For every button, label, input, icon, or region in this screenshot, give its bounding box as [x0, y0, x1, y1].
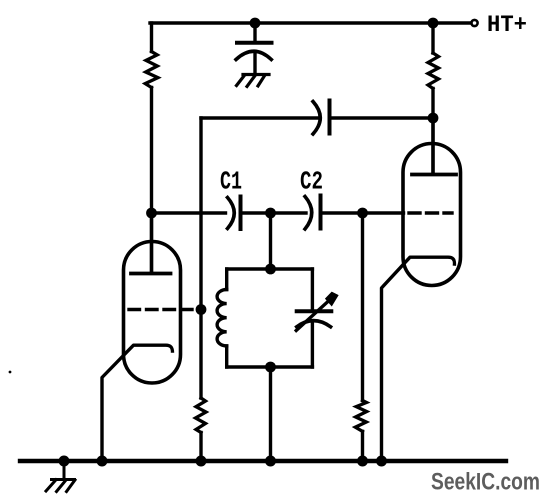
capacitor C3 coupling: curved left plate — [313, 102, 320, 135]
junction dot rail at ground symbol — [59, 456, 70, 467]
junction dot right grid node — [357, 208, 368, 219]
junction dot top rail at bypass capacitor — [250, 18, 261, 29]
wire y=213 from anode node to C1 — [152, 211, 226, 214]
cathode of V2 with lead to ground rail — [382, 257, 455, 459]
tank circuit loop (top and bottom wires) — [227, 269, 313, 367]
wire ground rail (bottom) — [20, 459, 506, 463]
cathode of V1 with lead to ground rail — [102, 345, 173, 459]
resistor R2 (right anode resistor) — [428, 53, 439, 89]
wire tank bottom to ground rail — [269, 367, 272, 459]
wire top HT+ rail — [150, 21, 471, 24]
variable capacitor VC1 (right branch of tank) — [296, 269, 338, 367]
wire rail to resistor R2 — [431, 23, 434, 53]
ground chassis symbol (top, under bypass capacitor) — [237, 75, 270, 87]
capacitor C3 coupling: straight right plate — [328, 101, 332, 134]
terminal HT+ open circle — [471, 20, 477, 26]
junction dot rail at R4 — [357, 456, 368, 467]
wire R1 to left tube anode — [150, 88, 153, 273]
capacitor bypass: flat top plate — [237, 41, 272, 45]
wire feedback line y=118 right segment — [330, 116, 434, 119]
capacitor C2: straight right plate — [319, 196, 323, 229]
wire R3 to ground rail — [199, 433, 202, 460]
junction dot rail at V2 cathode — [376, 456, 387, 467]
wire bypass capacitor to ground — [253, 54, 256, 73]
inductor L1 (left branch of tank) — [217, 269, 227, 367]
wire grid-bias vertical x=201 — [199, 118, 202, 398]
wire V1 anode lead through envelope — [150, 213, 153, 272]
capacitor C1: straight right plate — [239, 197, 243, 230]
capacitor C1: curved left plate — [228, 198, 235, 229]
wire V2 anode lead — [431, 118, 434, 173]
grid of V2 (dashed) — [409, 211, 452, 214]
wire feedback line y=118 left segment — [201, 116, 317, 119]
triode V2 (right tube) envelope — [403, 144, 461, 286]
wire rail to bypass capacitor — [253, 23, 256, 41]
svg-text:HT+: HT+ — [487, 12, 527, 39]
resistor R3 (left grid resistor) — [196, 398, 207, 433]
junction dot top rail at right resistor — [428, 18, 439, 29]
svg-text:C1: C1 — [220, 166, 242, 196]
junction dot tank top node on y=213 — [265, 208, 276, 219]
anode plate of V1 — [131, 272, 171, 276]
svg-text:SeekIC.com: SeekIC.com — [431, 469, 540, 496]
ground chassis symbol (bottom left) — [46, 461, 75, 492]
svg-text:C2: C2 — [300, 166, 323, 196]
junction dot tank top — [265, 264, 276, 275]
junction dot tank bottom — [265, 362, 276, 373]
wire y=213 between C1 and C2 — [241, 211, 307, 214]
capacitor C2: curved left plate — [305, 197, 312, 230]
wire tank top connection — [269, 213, 272, 269]
junction dot anode of right tube / R2 / C3 — [428, 113, 439, 124]
junction dot rail at tank bottom — [265, 456, 276, 467]
junction dot V1 grid to bias line — [196, 304, 207, 315]
resistor R1 (left anode resistor) — [145, 52, 158, 88]
junction dot rail at V1 cathode — [97, 456, 108, 467]
wire C2 output down to R4 — [361, 213, 364, 401]
wire R4 to ground rail — [361, 431, 364, 459]
wire R2 to right tube anode — [431, 89, 434, 174]
resistor R4 (right grid resistor) — [355, 401, 366, 432]
wire y=213 from C2 to right tube grid — [321, 211, 404, 214]
junction dot rail at R3 — [196, 456, 207, 467]
anode plate of V2 — [412, 173, 456, 177]
wire left vertical from rail to resistor R1 — [150, 23, 153, 52]
triode V1 (left tube) envelope — [124, 242, 181, 384]
grid of V1 (dashed) — [129, 308, 201, 311]
junction dot left tube anode node — [146, 208, 157, 219]
capacitor bypass: curved bottom plate — [236, 51, 271, 59]
